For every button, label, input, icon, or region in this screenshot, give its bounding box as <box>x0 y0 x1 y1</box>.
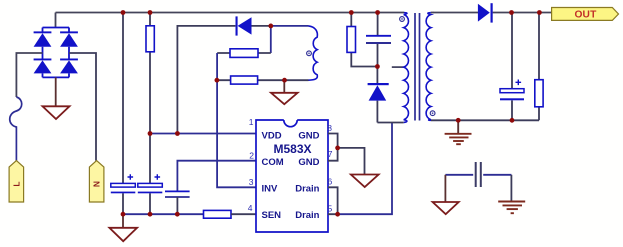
wire top DC rail <box>56 12 405 14</box>
inductor aux winding W3 <box>309 26 318 80</box>
ground chassis main <box>109 214 137 241</box>
ground chassis Y-cap <box>433 202 459 214</box>
resistor R6 sense <box>204 210 257 218</box>
svg-text:L: L <box>12 181 22 186</box>
svg-text:OUT: OUT <box>574 10 597 21</box>
capacitor C1 electrolytic <box>111 174 136 193</box>
diode D1 bridge top-left <box>34 31 52 46</box>
diode D2 bridge top-right <box>60 31 78 46</box>
wire Y-cap right to earth ground <box>510 175 512 202</box>
svg-text:8: 8 <box>327 123 332 133</box>
svg-text:GND: GND <box>298 130 319 141</box>
capacitor C6 output electrolytic <box>500 13 524 121</box>
wire secondary top rail left of diode <box>433 12 478 14</box>
wire D5 cathode to junction <box>252 25 271 27</box>
capacitor C3 <box>165 191 190 197</box>
svg-text:INV: INV <box>262 184 279 195</box>
node drain row <box>335 212 340 217</box>
wire C1 branch vertical <box>122 13 124 215</box>
svg-text:5: 5 <box>328 203 333 213</box>
wire junction down to R1 <box>270 26 272 53</box>
capacitor C4 snubber <box>366 13 391 67</box>
svg-text:GND: GND <box>298 157 319 168</box>
wire secondary bottom rail <box>431 119 539 121</box>
node divider R1-R2 <box>215 78 220 83</box>
wire VDD row <box>150 133 256 135</box>
inductor L1 <box>10 97 22 161</box>
port flag L <box>9 161 24 202</box>
wire C3 to bottom rail <box>176 197 178 214</box>
wire bridge bottom to ground <box>55 77 57 106</box>
svg-text:M583X: M583X <box>273 142 311 156</box>
wire GND pins 8-7 bracket <box>328 134 338 161</box>
svg-text:4: 4 <box>248 203 253 213</box>
wire secondary top rail right of diode <box>493 12 552 14</box>
node aux winding phase dot <box>307 51 312 56</box>
node primary phase dot <box>400 17 405 22</box>
ground earth secondary <box>445 120 472 144</box>
node secondary phase dot <box>430 111 435 116</box>
wire Drain pins 6-5 bracket <box>328 187 338 214</box>
transformer T1 primary winding <box>404 13 409 123</box>
wire drain row to transformer <box>338 123 392 215</box>
capacitor C7 Y-cap <box>445 162 511 187</box>
svg-text:SEN: SEN <box>262 210 282 221</box>
node top rail / R4 <box>148 10 153 15</box>
op-amp controller IC U1 M583X <box>256 120 328 232</box>
resistor R3 snubber <box>347 13 377 67</box>
port flag N <box>89 161 104 202</box>
ground chassis IC <box>351 175 379 188</box>
resistor R8 output load <box>535 13 543 121</box>
transformer T1 secondary winding <box>426 13 431 121</box>
diode D6 clamp <box>368 67 389 123</box>
wire VDD to diode D5 anode <box>177 26 235 134</box>
node out rail / C6 <box>509 10 514 15</box>
resistor R2 <box>217 76 285 84</box>
capacitor C2 electrolytic <box>138 174 163 193</box>
port flag OUT <box>552 8 619 21</box>
wire primary bottom <box>377 122 403 124</box>
wire aux winding bottom <box>285 79 309 81</box>
node bottom rail / C1 <box>121 212 126 217</box>
wire primary tap stub <box>392 66 404 68</box>
bridge rectifier B1 <box>34 13 78 78</box>
wire GND tap to ground <box>338 148 365 175</box>
wire Y-cap left to chassis ground <box>444 175 446 202</box>
node top rail / C1 <box>121 10 126 15</box>
diode D4 bridge bottom-right <box>60 59 78 74</box>
wire bridge AC right to N <box>69 53 96 161</box>
node snubber junction <box>375 64 380 69</box>
node top rail / R3 <box>349 10 354 15</box>
node VDD / D5 branch <box>175 131 180 136</box>
wire startup resistor branch vertical <box>149 13 151 215</box>
svg-text:7: 7 <box>328 149 333 159</box>
wire bottom rail <box>123 213 204 215</box>
wire junction to aux winding top <box>271 25 309 27</box>
transformer T1 core <box>415 13 420 121</box>
svg-text:COM: COM <box>262 157 284 168</box>
ground chassis below bridge <box>43 106 70 119</box>
resistor R4 startup <box>146 26 154 52</box>
wire bridge top stem <box>55 13 57 28</box>
ground chassis aux <box>271 80 298 104</box>
ground earth Y-cap <box>498 202 525 214</box>
wire bridge AC left to inductor <box>16 53 42 97</box>
resistor R1 <box>217 49 271 58</box>
wire COM row <box>177 161 256 191</box>
wire secondary top lead <box>431 12 434 14</box>
node aux ground junction <box>282 78 287 83</box>
node secondary rail / C6 <box>510 118 515 123</box>
svg-text:Drain: Drain <box>295 210 319 221</box>
svg-text:2: 2 <box>249 150 254 160</box>
node VDD / R4 <box>148 131 153 136</box>
node top rail / C4 <box>375 10 380 15</box>
node out rail / R8 <box>537 10 542 15</box>
node bottom rail / C2 <box>148 212 153 217</box>
svg-text:N: N <box>92 181 102 187</box>
node GND tap <box>335 146 340 151</box>
svg-text:3: 3 <box>249 177 254 187</box>
svg-text:VDD: VDD <box>262 130 282 141</box>
diode D7 output rectifier <box>478 3 493 22</box>
node D5 cathode junction <box>268 24 273 29</box>
svg-text:6: 6 <box>328 177 333 187</box>
node bottom rail / C3 <box>175 212 180 217</box>
node secondary rail / earth <box>456 118 461 123</box>
diode D5 aux rectifier <box>236 16 252 35</box>
svg-text:Drain: Drain <box>295 184 319 195</box>
svg-text:1: 1 <box>249 117 254 127</box>
diode D3 bridge bottom-left <box>34 59 52 74</box>
wire divider vertical to INV <box>217 53 256 187</box>
